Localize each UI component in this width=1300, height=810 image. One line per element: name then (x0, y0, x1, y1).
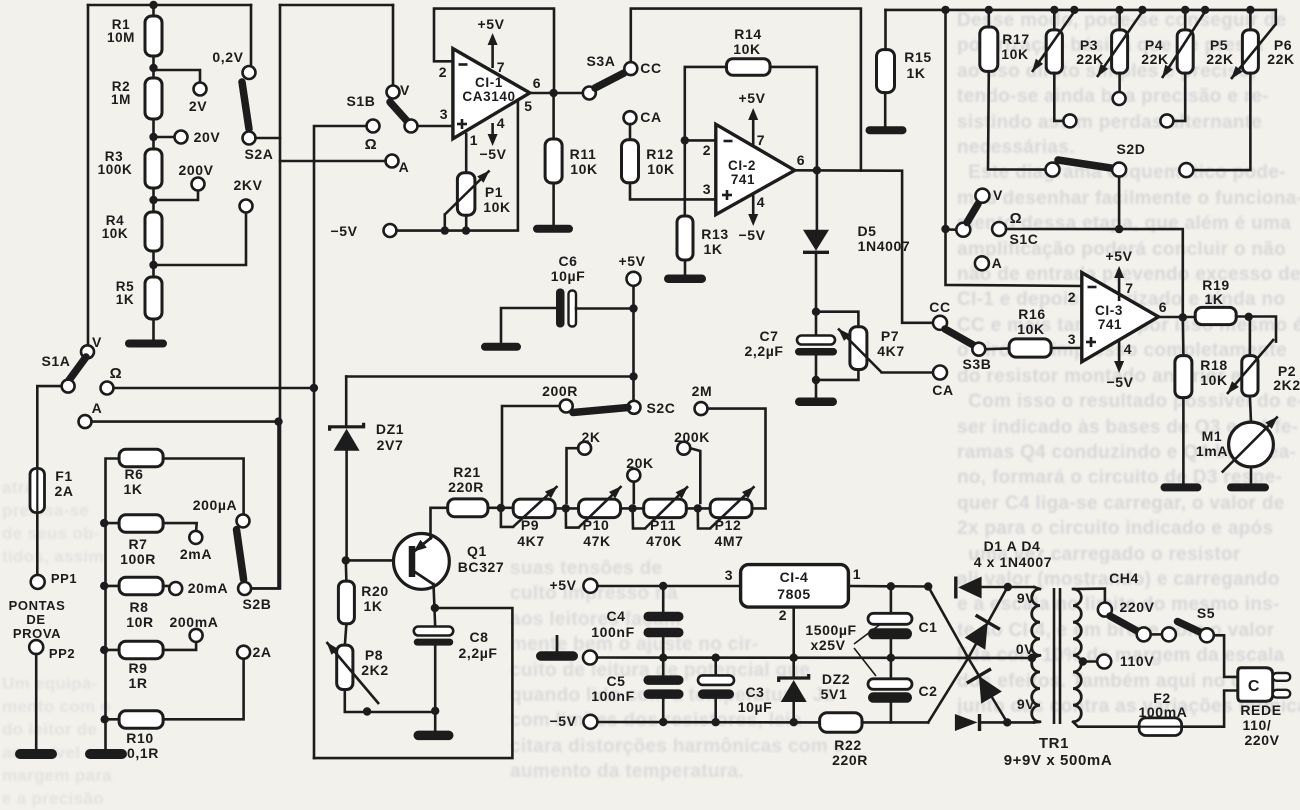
node R1 top (149, 1, 157, 9)
resistor R1 (145, 16, 162, 56)
terminal 2K (578, 442, 591, 455)
node pin2 (681, 136, 689, 144)
svg-text:0,2V: 0,2V (212, 49, 243, 65)
terminal 20V (175, 131, 188, 144)
node DZ1 branch (629, 372, 637, 380)
node R19/P2 (1245, 313, 1253, 321)
wire primary top to CH4 (1073, 589, 1105, 603)
svg-text:2mA: 2mA (180, 546, 212, 562)
svg-text:1: 1 (470, 132, 478, 148)
wire 2M to P12 (708, 409, 766, 508)
svg-text:10µF: 10µF (738, 699, 773, 715)
wire S2A out (256, 137, 281, 140)
svg-text:2: 2 (1068, 289, 1076, 305)
svg-text:S1C: S1C (1009, 231, 1038, 247)
terminal 20K (627, 469, 640, 482)
svg-text:R9: R9 (128, 660, 147, 676)
svg-text:2: 2 (779, 607, 787, 623)
resistor R3 (145, 149, 162, 188)
svg-text:D1 A D4: D1 A D4 (984, 538, 1041, 554)
wire R19 right (1236, 317, 1276, 342)
terminal PP1 (31, 575, 45, 589)
svg-text:REDE: REDE (1240, 702, 1281, 718)
wire R18 to ground (1182, 398, 1185, 484)
svg-text:Ω: Ω (110, 365, 123, 382)
wire C6 right (576, 307, 634, 310)
terminal CA (624, 111, 637, 124)
svg-text:A: A (399, 159, 410, 175)
svg-text:TR1: TR1 (1039, 735, 1069, 752)
svg-text:PONTAS: PONTAS (9, 598, 66, 613)
resistor R22 (820, 713, 862, 733)
svg-text:DE: DE (26, 612, 45, 627)
svg-text:R12: R12 (646, 146, 673, 162)
resistor R18 (1182, 317, 1185, 356)
wire R2-R3 (152, 119, 155, 150)
terminal 2mA (189, 531, 202, 544)
svg-text:4 x 1N4007: 4 x 1N4007 (974, 554, 1052, 570)
svg-text:R18: R18 (1200, 357, 1227, 373)
svg-text:2V7: 2V7 (377, 437, 404, 453)
svg-text:2K2: 2K2 (1273, 377, 1300, 393)
wire S1B A to bus (280, 160, 386, 163)
svg-text:2: 2 (703, 142, 711, 158)
node ohm rail (1115, 225, 1123, 233)
svg-text:20mA: 20mA (188, 580, 229, 596)
svg-text:S2C: S2C (646, 400, 675, 416)
wire 0V rail (597, 656, 1032, 659)
svg-text:x25V: x25V (810, 637, 845, 653)
svg-text:2,2µF: 2,2µF (744, 343, 783, 359)
supply -5V arrow CI-1 (491, 123, 494, 137)
wire -5V rail to pin5 (397, 100, 518, 231)
resistor R5 (145, 277, 162, 319)
wire center bus (251, 5, 280, 588)
wire rail right (886, 9, 1276, 12)
svg-text:2,2µF: 2,2µF (458, 645, 497, 661)
svg-text:CA: CA (640, 109, 661, 125)
terminal S1C A (975, 256, 989, 270)
wire C8 bottom (434, 646, 437, 731)
wire P7 bottom loop (816, 370, 858, 380)
wire DZ1 to base node (345, 450, 348, 561)
svg-text:CA3140: CA3140 (462, 89, 515, 104)
wire R15 to ground (884, 93, 887, 127)
resistor R17 (985, 6, 993, 14)
svg-text:−5V: −5V (330, 223, 357, 239)
ground under M1 (1227, 483, 1269, 491)
svg-text:7: 7 (497, 59, 505, 75)
svg-text:1K: 1K (116, 292, 134, 307)
svg-text:R8: R8 (129, 599, 148, 615)
node DZ2 top (790, 654, 798, 662)
wire F2 to TR1 (1073, 722, 1139, 727)
svg-text:−5V: −5V (549, 713, 576, 729)
wire CI-3 output (1159, 316, 1196, 319)
wire 0V tap (1032, 655, 1040, 658)
terminal 200K (677, 442, 690, 455)
op-amp CI-2 741 (716, 124, 795, 214)
svg-text:C4: C4 (606, 608, 625, 624)
fuse F1 (36, 469, 39, 512)
svg-text:10K: 10K (570, 161, 597, 177)
potentiometer P4 (1115, 6, 1123, 14)
wire 9V top (1034, 587, 1040, 589)
svg-text:4: 4 (1124, 341, 1132, 357)
wire R7 to 2mA (163, 523, 197, 531)
svg-text:S2D: S2D (1116, 141, 1145, 157)
terminal 2V (194, 83, 207, 96)
svg-text:C7: C7 (759, 328, 778, 344)
svg-text:741: 741 (731, 172, 755, 187)
terminal CA bottom (933, 366, 947, 380)
svg-text:−5V: −5V (738, 227, 765, 243)
node R1/R2 (149, 64, 157, 72)
wire S5 to plug (1214, 635, 1238, 677)
switch S3A (583, 87, 596, 100)
node C6 (629, 304, 637, 312)
svg-text:A: A (992, 255, 1003, 271)
diagonal wire 1 (928, 587, 1007, 723)
node base (342, 556, 350, 564)
svg-text:C1: C1 (918, 619, 937, 635)
supply +5V arrow CI-2 (752, 117, 755, 146)
svg-text:+5V: +5V (549, 577, 576, 593)
wire S1A ohm run (114, 387, 314, 390)
svg-text:V: V (92, 334, 102, 350)
wire base (346, 559, 406, 562)
svg-text:100mA: 100mA (1139, 704, 1188, 720)
svg-text:4: 4 (757, 194, 765, 210)
node collector/box (431, 604, 439, 612)
svg-text:P10: P10 (583, 517, 610, 533)
mains plug (1238, 668, 1273, 701)
svg-text:7805: 7805 (777, 586, 811, 602)
svg-text:110V: 110V (1120, 653, 1154, 669)
resistor R7 (100, 519, 108, 527)
potentiometer P10 (579, 499, 621, 517)
zener DZ2 5V1 (792, 658, 795, 678)
svg-text:741: 741 (1098, 317, 1122, 332)
wire 2KV tap (154, 213, 247, 266)
svg-text:P7: P7 (881, 328, 899, 344)
node C5 bottom (659, 718, 667, 726)
capacitor C6 (556, 289, 565, 328)
svg-text:22K: 22K (1267, 51, 1294, 67)
svg-text:1N4007: 1N4007 (858, 238, 911, 254)
terminal +5V mid (627, 272, 641, 286)
wire CI-4 out (848, 585, 928, 588)
svg-text:CI-4: CI-4 (780, 569, 809, 585)
transformer core (1053, 588, 1056, 724)
svg-text:2KV: 2KV (233, 177, 262, 193)
node P1 wiper (441, 226, 449, 234)
wire CH4 to S5 (1151, 633, 1162, 636)
wire CA to R12 (629, 124, 632, 140)
svg-text:3: 3 (1068, 331, 1076, 347)
svg-text:3: 3 (440, 106, 448, 122)
svg-text:R21: R21 (453, 464, 480, 480)
svg-text:0,1R: 0,1R (127, 745, 159, 761)
svg-text:CC: CC (929, 299, 950, 315)
node bridge +left (924, 582, 932, 590)
svg-text:470K: 470K (646, 533, 682, 549)
svg-text:C6: C6 (558, 253, 577, 269)
node chain 3 (628, 504, 636, 512)
wire +5V rail (597, 585, 740, 588)
svg-text:V: V (400, 82, 410, 98)
terminal S1B ohm (367, 120, 380, 133)
wire ohm loop bottom (314, 608, 512, 758)
wire R1-R2 (152, 56, 155, 79)
supply -5V arrow CI-2 (752, 193, 755, 217)
diode D3 (lower middle) (979, 676, 1002, 704)
wire 20V tap (154, 136, 175, 139)
svg-text:6: 6 (1159, 299, 1167, 315)
svg-text:S1A: S1A (41, 353, 70, 369)
wire R12 to pin3 CI-2 (630, 183, 716, 200)
svg-text:R16: R16 (1018, 306, 1045, 322)
svg-text:20K: 20K (626, 455, 653, 471)
svg-text:C3: C3 (745, 684, 764, 700)
svg-text:P8: P8 (365, 647, 383, 663)
wire P11-P12 (686, 507, 710, 510)
switch S2C (628, 401, 641, 414)
wire R9 to 200mA (163, 642, 196, 650)
svg-text:2: 2 (439, 64, 447, 80)
wire pin2 node (685, 139, 716, 142)
svg-text:10R: 10R (126, 614, 153, 630)
wire 20K to chain (632, 482, 635, 503)
terminal P6 contact (1179, 163, 1193, 177)
wire P3 bottom (1054, 73, 1063, 121)
svg-text:BC327: BC327 (458, 559, 505, 575)
wire S3B to R16 (985, 347, 1009, 350)
wire P8 bottom (345, 690, 435, 713)
wire P5 bottom (1173, 73, 1185, 121)
svg-text:1R: 1R (128, 675, 147, 691)
svg-text:220V: 220V (1119, 599, 1154, 615)
svg-text:1K: 1K (123, 481, 142, 497)
diode D5 1N4007 (803, 230, 829, 251)
svg-text:1500µF: 1500µF (805, 622, 856, 638)
node chain 1 (497, 504, 505, 512)
svg-text:Q1: Q1 (467, 543, 487, 559)
wire S2B to A bus (251, 422, 278, 589)
svg-text:9+9V x 500mA: 9+9V x 500mA (1004, 752, 1113, 769)
svg-text:R10: R10 (126, 730, 153, 746)
resistor R11 (545, 139, 562, 183)
wire D1 right (982, 586, 1034, 589)
node bridge +right (1004, 583, 1012, 591)
svg-text:110/: 110/ (1243, 717, 1272, 733)
svg-text:4M7: 4M7 (714, 533, 743, 549)
svg-text:4K7: 4K7 (517, 533, 544, 549)
wire 2V tap (154, 70, 201, 83)
diode D1 (954, 577, 957, 599)
switch S1C (956, 223, 970, 237)
svg-text:R13: R13 (701, 226, 728, 242)
svg-text:220R: 220R (448, 479, 484, 495)
svg-text:200V: 200V (178, 162, 213, 178)
wire R16 to pin3 CI-3 (1051, 347, 1082, 350)
switch S2A (242, 82, 249, 129)
svg-text:CI-2: CI-2 (728, 158, 756, 173)
wire CI-1 output (530, 92, 583, 95)
svg-text:10M: 10M (107, 30, 135, 45)
supply +5V arrow CI-1 (491, 42, 494, 68)
svg-text:7: 7 (757, 132, 765, 148)
wire P6 bottom (1193, 73, 1250, 170)
svg-text:220R: 220R (832, 752, 868, 768)
wire S1B V stem (392, 5, 395, 86)
svg-text:P12: P12 (715, 517, 742, 533)
diode D2 (upper middle) (965, 622, 988, 650)
wire R14 right (770, 67, 817, 170)
wire S1A A run (92, 420, 281, 423)
svg-text:1K: 1K (906, 65, 925, 81)
wire S1B ohm down (314, 126, 367, 758)
capacitor C8 (414, 627, 453, 636)
wire R11 to ground (552, 183, 555, 226)
node ohm junction (310, 384, 318, 392)
switch S1A (81, 345, 94, 358)
resistor R10 (101, 715, 109, 723)
node out/R18 (1179, 313, 1187, 321)
svg-text:100nF: 100nF (591, 688, 634, 704)
svg-text:F1: F1 (55, 468, 73, 484)
capacitor C4 (662, 586, 665, 613)
svg-text:2V: 2V (189, 98, 207, 114)
svg-text:22K: 22K (1141, 51, 1168, 67)
wire M1 to ground (1250, 467, 1253, 484)
potentiometer P6 (1246, 6, 1254, 14)
diode D4 (955, 714, 978, 731)
svg-text:1mA: 1mA (1196, 443, 1228, 459)
potentiometer P7 (850, 327, 867, 370)
svg-text:2A: 2A (54, 483, 73, 499)
svg-text:2M: 2M (692, 383, 713, 399)
resistor R20 (344, 560, 347, 582)
svg-text:−5V: −5V (1106, 374, 1133, 390)
svg-text:C: C (1248, 678, 1260, 695)
supply +5V arrow CI-3 (1118, 275, 1121, 301)
node R2/R3 (149, 133, 157, 141)
wire out to R11 (552, 93, 555, 140)
node R3/R4 (149, 196, 157, 204)
terminal 0,2V (243, 66, 256, 79)
svg-text:20V: 20V (194, 129, 221, 145)
wire R6 to 200uA (163, 459, 244, 514)
svg-text:10K: 10K (1001, 46, 1028, 62)
svg-text:2K2: 2K2 (361, 662, 388, 678)
wire PP2 to ground (35, 654, 38, 750)
terminal 2KV (240, 200, 253, 213)
node bridge -right (1003, 718, 1011, 726)
resistor R19 (1195, 307, 1236, 324)
svg-text:7: 7 (1125, 280, 1133, 296)
svg-text:220V: 220V (1244, 732, 1279, 748)
svg-text:S3B: S3B (962, 356, 991, 372)
resistor R9 (100, 646, 108, 654)
svg-text:9V: 9V (1017, 696, 1035, 712)
svg-text:C2: C2 (918, 683, 937, 699)
wire R13 to ground (684, 260, 687, 276)
svg-text:R11: R11 (570, 146, 597, 162)
switch S1B (387, 86, 400, 99)
terminal 0V (556, 635, 559, 652)
node D5/C7 (812, 308, 820, 316)
terminal 20mA (163, 585, 169, 588)
svg-text:R17: R17 (1002, 31, 1029, 47)
ground left rail (85, 749, 127, 759)
wire ohm to output node (1006, 229, 1183, 317)
svg-text:R7: R7 (128, 536, 147, 552)
terminal P3 tap (1063, 114, 1076, 127)
svg-text:10K: 10K (647, 161, 674, 177)
ground under R11 (533, 225, 573, 233)
svg-text:Ω: Ω (365, 136, 378, 153)
terminal 200mA (190, 629, 203, 642)
capacitor C2 (890, 658, 893, 679)
svg-text:S2A: S2A (244, 146, 273, 162)
op-amp CI-3 741 (1082, 273, 1159, 362)
terminal CC top (624, 62, 637, 75)
wire P9-P10 (555, 507, 578, 510)
node chain 4 (694, 504, 702, 512)
switch S5 (1162, 627, 1176, 641)
wire P1 bottom (465, 215, 468, 230)
svg-text:R22: R22 (834, 737, 861, 753)
potentiometer P3 (1050, 6, 1058, 14)
resistor R13 (677, 216, 693, 260)
node P1 bottom (462, 226, 470, 234)
svg-text:+5V: +5V (477, 16, 504, 32)
transformer TR1 secondary (1032, 589, 1040, 722)
svg-text:3: 3 (725, 567, 733, 583)
svg-text:1K: 1K (1204, 291, 1223, 307)
transformer TR1 primary (1073, 589, 1081, 722)
svg-text:10K: 10K (1200, 372, 1227, 388)
svg-text:Ω: Ω (1010, 210, 1023, 227)
capacitor C5 (662, 658, 665, 676)
wire R22 right (862, 721, 928, 724)
svg-text:3: 3 (703, 181, 711, 197)
svg-text:1M: 1M (111, 92, 131, 107)
wire F1 to PP1 (36, 513, 39, 575)
ground under C7 (795, 398, 837, 407)
resistor R8 (100, 582, 108, 590)
wire +5V down to S2C (632, 286, 635, 401)
svg-text:10K: 10K (733, 41, 760, 57)
potentiometer P2 (1249, 317, 1252, 356)
transistor Q1 BC327 (394, 534, 450, 590)
wire top rail A (88, 4, 251, 7)
node out/C1 (887, 582, 895, 590)
wire 200R to chain (502, 406, 560, 508)
svg-text:22K: 22K (1206, 51, 1233, 67)
wire R3-R4 (152, 188, 155, 213)
svg-text:10K: 10K (1017, 321, 1044, 337)
supply -5V arrow CI-3 (1118, 340, 1121, 364)
node C4 top (659, 582, 667, 590)
terminal -5V supply (583, 715, 597, 729)
resistor R4 (145, 212, 162, 251)
wire S1A pole to F1 (37, 386, 61, 469)
wire emitter up to R21 (431, 508, 448, 539)
zener DZ1 2V7 (330, 423, 364, 431)
resistor R21 (448, 499, 488, 517)
